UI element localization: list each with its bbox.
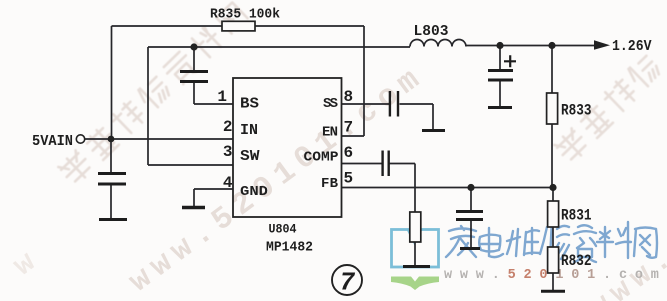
svg-text:5: 5 [344, 170, 354, 188]
svg-text:7: 7 [344, 119, 354, 137]
svg-text:4: 4 [223, 174, 233, 192]
svg-text:BS: BS [240, 96, 259, 113]
svg-text:R832: R832 [561, 252, 592, 270]
svg-text:SS: SS [323, 96, 338, 112]
svg-text:8: 8 [344, 88, 354, 106]
svg-text:GND: GND [240, 184, 268, 200]
svg-text:7: 7 [339, 268, 355, 298]
svg-text:EN: EN [322, 125, 338, 141]
svg-text:w: w [8, 246, 43, 284]
svg-text:2: 2 [223, 118, 233, 136]
svg-text:1: 1 [217, 88, 227, 106]
svg-text:L803: L803 [414, 24, 449, 40]
svg-text:R833: R833 [561, 102, 592, 120]
svg-text:FB: FB [321, 176, 339, 192]
svg-text:6: 6 [344, 144, 354, 162]
svg-text:COMP: COMP [304, 150, 339, 166]
svg-text:SW: SW [240, 148, 260, 165]
svg-text:MP1482: MP1482 [266, 240, 313, 256]
svg-text:R835 100k: R835 100k [210, 8, 280, 23]
svg-text:5VAIN: 5VAIN [32, 134, 73, 150]
svg-text:3: 3 [223, 143, 233, 161]
svg-text:U804: U804 [269, 223, 297, 237]
svg-text:R831: R831 [561, 207, 592, 225]
svg-text:IN: IN [240, 122, 258, 139]
svg-text:1.26V: 1.26V [612, 39, 652, 55]
